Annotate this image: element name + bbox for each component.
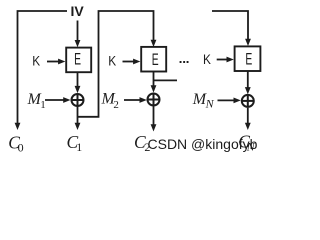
wire IV feedback line down to C0 — [18, 11, 68, 124]
wire XOR3 output down to CN — [247, 108, 249, 124]
wire K3 arrow — [217, 59, 228, 61]
block cipher E stage 2 — [141, 47, 166, 72]
svg-text:K: K — [32, 52, 40, 68]
wire IV to E1 — [77, 21, 79, 42]
wire feedback C1 to E2 — [78, 11, 154, 117]
wire E3 to XOR3 — [247, 71, 249, 88]
wire E2 to XOR2 with feedback branch — [153, 72, 155, 87]
arrowhead into C0 — [15, 123, 21, 130]
wire E1 to XOR1 — [77, 72, 79, 87]
xor gate stage 2 — [148, 94, 160, 106]
wire K2 arrow — [123, 61, 135, 63]
wire M1 arrow — [45, 99, 64, 101]
wire XOR2 output down to C2 — [153, 106, 155, 125]
wire XOR1 output down to C1 — [77, 107, 79, 124]
wire feedback into E stage N — [212, 11, 248, 40]
wire branch toward dots — [154, 79, 178, 81]
svg-text:N: N — [205, 97, 215, 111]
wire M2 arrow — [124, 99, 141, 101]
svg-text:K: K — [108, 52, 116, 68]
block cipher E stage 1 — [66, 48, 91, 73]
svg-text:N: N — [246, 140, 256, 154]
svg-text:IV: IV — [71, 3, 85, 19]
svg-text:1: 1 — [40, 99, 46, 111]
svg-text:0: 0 — [18, 141, 24, 155]
wire MN arrow — [218, 99, 235, 101]
svg-text:E: E — [74, 51, 81, 69]
svg-text:E: E — [152, 51, 159, 69]
svg-text:K: K — [203, 51, 211, 67]
svg-text:1: 1 — [76, 140, 82, 154]
wire K1 arrow — [47, 61, 59, 63]
block cipher E stage N — [235, 46, 261, 71]
arrowhead into E1 — [75, 40, 81, 47]
xor gate stage N — [242, 95, 254, 107]
svg-text:2: 2 — [113, 99, 119, 111]
svg-text:E: E — [245, 50, 252, 68]
dots ellipsis — [180, 61, 189, 63]
xor gate stage 1 — [72, 94, 84, 106]
